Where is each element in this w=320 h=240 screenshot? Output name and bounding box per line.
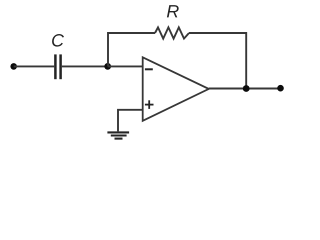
wire: feedback left vertical (junction up to top rail) (108, 33, 155, 66)
wire: op-amp output to right terminal (209, 88, 281, 90)
wire: non-inverting input to ground stem (118, 110, 143, 132)
node: output junction dot (243, 85, 250, 92)
label C (52, 34, 64, 47)
op-amp U1 triangle (143, 57, 209, 121)
node: left input terminal dot (10, 63, 17, 70)
node: junction at inverting input (104, 63, 111, 70)
node: right output terminal dot (277, 85, 284, 92)
label R (167, 5, 179, 17)
wire: junction to op-amp inverting input (108, 65, 143, 67)
op-amp inverting input minus sign (145, 68, 153, 70)
capacitor C1 plates (54, 54, 57, 79)
wire: resistor to feedback right vertical, down to output node (189, 33, 246, 89)
op-amp non-inverting input plus sign (145, 104, 154, 106)
resistor R1 zigzag (155, 27, 189, 38)
wire: capacitor right plate to inverting-input junction (62, 65, 108, 67)
wire: input terminal to capacitor left plate (14, 65, 55, 67)
ground symbol (107, 131, 129, 133)
